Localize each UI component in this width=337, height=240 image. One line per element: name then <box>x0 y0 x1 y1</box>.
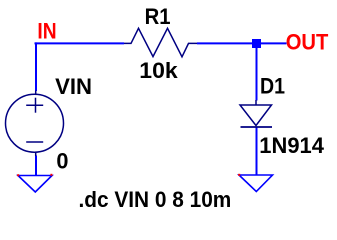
svg-text:OUT: OUT <box>286 29 329 54</box>
svg-text:0: 0 <box>56 148 68 173</box>
svg-text:IN: IN <box>37 19 56 44</box>
svg-text:D1: D1 <box>260 74 285 99</box>
svg-text:.dc VIN 0 8 10m: .dc VIN 0 8 10m <box>79 187 232 212</box>
svg-text:1N914: 1N914 <box>259 133 324 158</box>
svg-text:R1: R1 <box>145 4 171 29</box>
svg-text:10k: 10k <box>139 58 178 83</box>
svg-text:VIN: VIN <box>55 74 92 99</box>
